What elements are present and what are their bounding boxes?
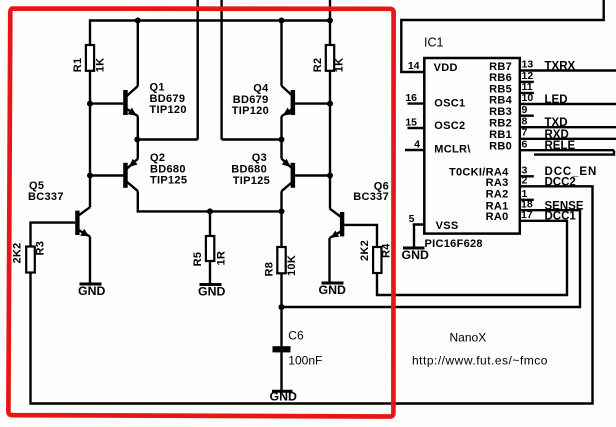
svg-text:RB1: RB1 <box>489 129 512 141</box>
ground GND Q6 <box>319 283 346 297</box>
svg-text:R2: R2 <box>312 58 324 73</box>
svg-text:BC337: BC337 <box>353 191 389 203</box>
label R8 value <box>264 255 299 277</box>
IC U1 PIC16F628 box <box>424 58 520 234</box>
resistor R4 <box>373 247 381 273</box>
svg-text:IC1: IC1 <box>424 36 444 50</box>
svg-text:2: 2 <box>522 175 528 187</box>
svg-text:http://www.fut.es/~fmco: http://www.fut.es/~fmco <box>412 354 548 368</box>
wire Q6 base to R4 <box>344 225 377 247</box>
svg-text:BD680: BD680 <box>150 163 186 175</box>
svg-text:Q4: Q4 <box>253 83 269 95</box>
svg-text:1K: 1K <box>94 58 106 73</box>
wire Q5 base to R3 <box>31 223 76 247</box>
transistor Q2 <box>123 159 138 192</box>
wire VDD to top right <box>401 0 603 72</box>
wire Q1 base <box>90 102 123 104</box>
svg-text:10K: 10K <box>286 255 298 276</box>
svg-text:GND: GND <box>402 248 429 262</box>
wire R8 tap <box>280 211 282 247</box>
svg-text:R5: R5 <box>192 252 204 267</box>
svg-text:R8: R8 <box>264 262 276 277</box>
svg-text:RB0: RB0 <box>489 140 512 152</box>
svg-text:R4: R4 <box>381 243 393 258</box>
wire top rail <box>90 21 330 46</box>
label R4 value <box>359 240 393 261</box>
wire Q2 emitter vertical <box>137 140 139 159</box>
transistor Q1 <box>123 86 138 117</box>
label Q6 <box>353 181 389 204</box>
wire pin10 LED <box>520 103 616 105</box>
junction right output rail <box>279 137 285 143</box>
wire pin6 RELE return <box>534 150 614 154</box>
svg-text:RB7: RB7 <box>489 61 512 73</box>
label Q2 <box>150 152 187 187</box>
svg-text:C6: C6 <box>288 329 304 343</box>
svg-text:Q1: Q1 <box>150 82 165 94</box>
svg-text:OSC1: OSC1 <box>434 97 465 109</box>
svg-text:TIP125: TIP125 <box>233 175 270 187</box>
svg-text:RXD: RXD <box>545 129 569 141</box>
svg-text:TXD: TXD <box>545 117 568 129</box>
wire Q1 collector <box>137 21 139 86</box>
wire Q6 emitter to GND <box>328 238 330 283</box>
wire R5 to GND <box>209 261 211 284</box>
svg-text:PIC16F628: PIC16F628 <box>425 238 483 250</box>
svg-text:GND: GND <box>198 285 225 299</box>
svg-text:BD679: BD679 <box>233 94 269 106</box>
svg-text:Q3: Q3 <box>252 152 267 164</box>
wire right output vertical to top edge <box>220 0 222 140</box>
label C6 <box>288 329 322 368</box>
svg-text:4: 4 <box>414 139 420 151</box>
svg-text:RA0: RA0 <box>486 211 509 223</box>
svg-text:TXRX: TXRX <box>545 61 576 73</box>
transistor Q4 <box>282 86 296 117</box>
svg-text:NanoX: NanoX <box>450 331 487 345</box>
wire pin7 RXD <box>520 138 616 140</box>
wire C6 to GND <box>280 352 282 391</box>
svg-text:16: 16 <box>405 92 417 104</box>
wire pin11 stub <box>520 92 534 94</box>
wire Q4 collector <box>280 21 282 86</box>
svg-text:BC337: BC337 <box>28 191 64 203</box>
svg-text:GND: GND <box>319 283 346 297</box>
junction sense node C6/R8 <box>279 304 285 310</box>
capacitor C6 <box>273 346 291 352</box>
svg-text:R1: R1 <box>72 58 84 73</box>
wire lower rail <box>138 191 282 211</box>
svg-text:2K2: 2K2 <box>12 242 24 263</box>
wire Q4 base <box>295 102 330 104</box>
transistor Q6 <box>330 208 345 238</box>
wire pin4 stub <box>405 149 424 151</box>
resistor R8 <box>277 247 285 273</box>
svg-text:VDD: VDD <box>434 62 458 74</box>
resistor R5 <box>206 236 214 261</box>
svg-text:RB2: RB2 <box>489 118 512 130</box>
ground GND R5 <box>198 285 225 299</box>
wire pin3 stub <box>520 175 534 177</box>
svg-text:RB6: RB6 <box>489 72 512 84</box>
svg-text:Q2: Q2 <box>150 152 165 164</box>
label R3 value <box>12 241 47 264</box>
wire Q5 emitter to GND <box>89 237 91 284</box>
resistor R3 <box>26 247 35 273</box>
svg-text:RA3: RA3 <box>486 177 509 189</box>
transistor Q5 <box>75 207 90 236</box>
red highlight box <box>8 9 393 417</box>
ground GND C6 <box>270 390 297 404</box>
svg-text:BD679: BD679 <box>150 93 186 105</box>
wire pin15 stub <box>408 127 425 129</box>
svg-text:14: 14 <box>408 60 420 72</box>
svg-text:1K: 1K <box>334 58 346 73</box>
label Q5 <box>28 180 64 203</box>
svg-text:GND: GND <box>78 284 105 298</box>
resistor R2 <box>326 45 334 71</box>
ground GND Q5 <box>78 284 105 298</box>
svg-text:9: 9 <box>522 104 528 116</box>
label Q4 <box>232 83 269 118</box>
svg-text:RB4: RB4 <box>489 95 512 107</box>
wire pin13 TXRX <box>520 69 616 71</box>
wire R3 to bottom net DCC2 <box>31 186 593 403</box>
wire R2 to Q6 collector <box>329 71 331 209</box>
label R5 value <box>192 251 228 267</box>
svg-text:15: 15 <box>405 117 417 129</box>
svg-text:7: 7 <box>522 127 528 139</box>
wire pin16 stub <box>408 102 425 104</box>
svg-text:DCC1: DCC1 <box>545 211 577 223</box>
junction Q4 collector / top rail <box>279 18 285 24</box>
svg-text:VSS: VSS <box>436 220 459 232</box>
junction supply / top rail <box>327 18 333 24</box>
svg-text:BD680: BD680 <box>231 163 267 175</box>
wire Q2 base <box>90 174 123 176</box>
wire Q3 base <box>295 174 330 176</box>
svg-text:TIP125: TIP125 <box>150 175 187 187</box>
transistor Q3 <box>282 159 296 192</box>
svg-text:5: 5 <box>409 213 415 225</box>
label Q1 <box>150 82 187 117</box>
wire Q3 emitter vertical <box>280 140 282 159</box>
svg-text:13: 13 <box>522 59 534 71</box>
wire R4 to DCC1 <box>377 221 567 295</box>
wire right output rail <box>222 116 282 139</box>
wire sense node to SENSE pin <box>282 210 581 307</box>
wire pin5 VSS to GND <box>413 225 425 247</box>
wire R5 tap <box>209 211 211 236</box>
resistor R1 <box>86 45 94 71</box>
svg-text:DCC2: DCC2 <box>545 176 576 188</box>
svg-text:MCLR\: MCLR\ <box>434 144 470 156</box>
svg-text:TIP120: TIP120 <box>150 104 187 116</box>
svg-text:TIP120: TIP120 <box>232 105 269 117</box>
svg-text:R3: R3 <box>35 241 47 256</box>
wire pin9 stub <box>520 114 534 116</box>
svg-text:6: 6 <box>522 138 528 150</box>
junction R5 / lower rail <box>207 208 213 214</box>
junction Q1 collector / top rail <box>135 18 141 24</box>
svg-text:RB3: RB3 <box>489 106 512 118</box>
svg-text:OSC2: OSC2 <box>434 120 465 132</box>
junction Q1 base / R1 net <box>87 101 93 107</box>
wire supply vertical to top edge <box>329 0 331 45</box>
wire R8 to C6 <box>280 273 282 346</box>
wire pin6 RELE <box>520 149 614 151</box>
svg-text:LED: LED <box>545 94 568 106</box>
svg-text:1R: 1R <box>216 251 228 266</box>
svg-text:2K2: 2K2 <box>359 240 371 261</box>
svg-text:RELE: RELE <box>545 140 576 152</box>
label Q3 <box>231 152 270 187</box>
junction Q3 base / R2 net <box>327 173 333 179</box>
wire pin12 stub <box>520 81 534 83</box>
wire pin1 stub <box>520 199 534 201</box>
svg-text:RB5: RB5 <box>489 83 512 95</box>
label R2 value <box>312 58 346 73</box>
wire left output rail <box>138 116 198 139</box>
junction R8 / lower rail <box>279 208 285 214</box>
wire left output vertical to top edge <box>196 0 198 140</box>
svg-text:8: 8 <box>522 115 528 127</box>
svg-text:17: 17 <box>521 209 533 221</box>
junction Q4 base / R2 net <box>327 101 333 107</box>
ground GND VSS <box>402 248 429 262</box>
label R1 value <box>72 58 106 73</box>
svg-text:10: 10 <box>522 92 534 104</box>
svg-text:RA2: RA2 <box>486 188 509 200</box>
svg-text:100nF: 100nF <box>288 354 322 368</box>
svg-text:GND: GND <box>270 390 297 404</box>
junction Q2 base / R1 net <box>87 173 93 179</box>
wire pin8 TXD <box>520 126 616 128</box>
wire R1 to Q5 collector <box>89 71 91 207</box>
junction left output rail <box>134 137 140 143</box>
